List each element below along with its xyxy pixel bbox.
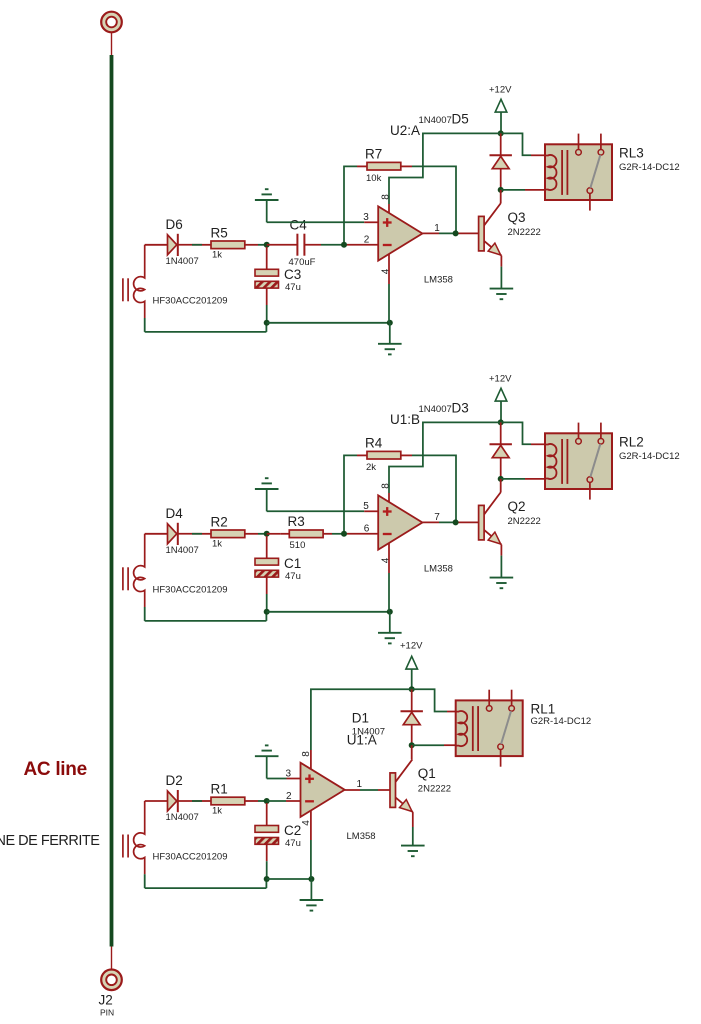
power +12V (stage U1:A)	[406, 656, 418, 689]
ground (below op-amp)	[378, 323, 402, 355]
label U2:A	[390, 123, 420, 138]
ground (non-inverting input)	[255, 478, 279, 511]
svg-text:LM358: LM358	[424, 563, 453, 574]
wire C3 to bottom net	[266, 288, 268, 323]
svg-text:1: 1	[434, 223, 440, 234]
transistor Q1 2N2222	[390, 760, 413, 813]
capacitor C4 470uF	[297, 234, 304, 256]
svg-text:U1:A: U1:A	[347, 733, 377, 748]
wire bottom net	[267, 878, 312, 880]
label U1:B	[390, 412, 420, 427]
svg-text:6: 6	[364, 524, 370, 535]
ground (emitter Q3)	[490, 289, 514, 300]
svg-text:C1: C1	[284, 556, 301, 571]
label 2k (R4)	[366, 462, 376, 473]
svg-text:LM358: LM358	[424, 274, 453, 285]
label D4	[166, 506, 184, 521]
wire inductor top to diode D4	[145, 533, 168, 535]
svg-text:2k: 2k	[366, 462, 376, 473]
label R4	[365, 436, 383, 451]
svg-text:1N4007: 1N4007	[166, 545, 199, 556]
svg-text:+12V: +12V	[489, 84, 512, 95]
resistor R4 feedback	[357, 451, 412, 459]
svg-text:U1:B: U1:B	[390, 412, 420, 427]
wire node to resistor R3	[267, 533, 281, 535]
wire +12V to op-amp pin 8 (U1:A)	[311, 689, 412, 770]
transistor Q3 2N2222	[479, 203, 502, 256]
svg-text:3: 3	[286, 769, 292, 780]
svg-text:47u: 47u	[285, 571, 301, 582]
label 2N2222 (Q2)	[508, 516, 541, 527]
capacitor C2 47u	[255, 826, 279, 845]
wire op-amp output to transistor base (Q1)	[345, 789, 390, 791]
capacitor C3 47u	[255, 269, 279, 288]
wire +12V to relay coil (RL1)	[412, 689, 456, 711]
svg-text:G2R-14-DC12: G2R-14-DC12	[619, 451, 680, 462]
wire D6 to R5	[178, 244, 202, 246]
resistor R7 feedback	[357, 162, 412, 170]
label +12V (stage U2:A)	[489, 84, 512, 95]
wire C4 to op-amp inverting input	[304, 244, 378, 246]
svg-text:HF30ACC201209: HF30ACC201209	[153, 584, 228, 595]
svg-text:D3: D3	[452, 401, 469, 416]
svg-text:D1: D1	[352, 711, 369, 726]
diode D4	[168, 523, 178, 545]
label RL3	[619, 145, 644, 160]
svg-text:HF30ACC201209: HF30ACC201209	[153, 852, 228, 863]
svg-text:1: 1	[357, 779, 363, 790]
svg-text:5: 5	[363, 501, 369, 512]
wire AC line to terminal (bottom)	[111, 947, 113, 970]
svg-text:8: 8	[381, 483, 392, 489]
ground (non-inverting input)	[255, 745, 279, 778]
wire R4 to inverting input	[344, 455, 357, 533]
relay RL1 G2R-14-DC12	[456, 690, 523, 767]
svg-text:+12V: +12V	[489, 373, 512, 384]
svg-text:1N4007: 1N4007	[419, 115, 452, 126]
diode D6	[168, 234, 178, 256]
label Q2	[508, 499, 526, 514]
label D1	[352, 711, 369, 726]
label +12V (stage U1:B)	[489, 373, 512, 384]
diode D5 1N4007	[490, 133, 512, 190]
svg-text:2: 2	[286, 791, 292, 802]
label 1k (R5)	[212, 249, 222, 260]
svg-text:RL3: RL3	[619, 145, 644, 160]
label 1N4007 (D2)	[166, 812, 199, 823]
resistor R1 1k	[202, 797, 258, 805]
label U1:A	[347, 733, 377, 748]
wire node to capacitor C4	[267, 244, 298, 246]
label R2	[211, 514, 228, 529]
wire C1 to bottom net	[266, 577, 268, 612]
ground (emitter Q2)	[490, 578, 514, 589]
svg-text:D2: D2	[166, 773, 183, 788]
svg-text:LM358: LM358	[347, 831, 376, 842]
svg-text:J2: J2	[99, 993, 113, 1008]
label HF30ACC201209 (L2)	[153, 852, 228, 863]
svg-text:D6: D6	[166, 217, 183, 232]
wire R7 to output	[412, 166, 456, 233]
wire emitter to ground (Q1)	[412, 812, 414, 846]
svg-text:HF30ACC201209: HF30ACC201209	[153, 295, 228, 306]
svg-text:2N2222: 2N2222	[508, 227, 541, 238]
label 47u (C1)	[285, 571, 301, 582]
svg-text:G2R-14-DC12: G2R-14-DC12	[531, 716, 592, 727]
inductor L2 HF30ACC201209	[123, 801, 145, 874]
node +12V junction (stage 3)	[409, 686, 415, 692]
wire D2 to R1	[178, 800, 202, 802]
wire node to relay coil	[501, 189, 546, 191]
wire op-amp output to transistor base	[422, 232, 478, 234]
label 10k (R7)	[366, 173, 382, 184]
resistor R5 1k	[202, 241, 258, 249]
svg-text:AC line: AC line	[24, 759, 87, 780]
svg-text:R4: R4	[365, 436, 383, 451]
label G2R-14-DC12 (RL3)	[619, 162, 680, 173]
wire node to op-amp inverting input	[267, 800, 301, 802]
ground (emitter Q1)	[401, 846, 425, 857]
label AC line	[24, 759, 87, 780]
ground (non-inverting input)	[255, 189, 279, 222]
svg-text:1k: 1k	[212, 538, 222, 549]
svg-text:1N4007: 1N4007	[166, 812, 199, 823]
label C4	[290, 218, 308, 233]
label D6	[166, 217, 183, 232]
node flyback diode junction	[498, 187, 504, 193]
ground (below op-amp)	[300, 879, 324, 911]
label G2R-14-DC12 (RL1)	[531, 716, 592, 727]
label 2N2222 (Q1)	[418, 783, 451, 794]
label Q1	[418, 766, 436, 781]
label HF30ACC201209 (L6)	[153, 295, 228, 306]
node C3 bottom junction	[264, 320, 270, 326]
wire ground to op-amp non-inverting input	[267, 510, 379, 512]
label NE DE FERRITE	[0, 833, 100, 849]
svg-text:R3: R3	[288, 514, 305, 529]
svg-text:U2:A: U2:A	[390, 123, 420, 138]
svg-text:C3: C3	[284, 267, 301, 282]
label J2	[99, 993, 113, 1008]
label 510 (R3)	[290, 540, 306, 551]
svg-text:Q3: Q3	[508, 210, 526, 225]
svg-text:G2R-14-DC12: G2R-14-DC12	[619, 162, 680, 173]
wire collector to node (Q1)	[411, 745, 413, 759]
label 1N4007 (D6)	[166, 256, 199, 267]
node R2/C1 junction	[264, 531, 270, 537]
wire op-amp pin 4 to ground	[388, 543, 390, 612]
power +12V (stage U2:A)	[495, 99, 507, 133]
wire inductor bottom loop	[145, 874, 267, 888]
wire node to relay coil (RL1)	[412, 744, 456, 746]
label D3	[452, 401, 469, 416]
wire op-amp output to transistor base	[422, 521, 478, 523]
wire emitter to ground	[500, 256, 502, 289]
wire C2 to bottom net	[266, 844, 268, 879]
label C2	[284, 823, 301, 838]
node inverting input junction	[341, 242, 347, 248]
terminal J2 top	[101, 12, 122, 33]
node ground junction	[387, 320, 393, 326]
resistor R2 1k	[202, 530, 258, 538]
wire AC line (thick vertical)	[110, 55, 114, 947]
label D2	[166, 773, 183, 788]
wire ground to op-amp non-inverting input	[267, 221, 379, 223]
label +12V (stage U1:A)	[400, 640, 423, 651]
op-amp U1:A LM358	[286, 751, 376, 842]
label 1k (R2)	[212, 538, 222, 549]
wire bottom net	[267, 322, 390, 324]
label R1	[211, 782, 228, 797]
label 1N4007 (D1)	[352, 727, 385, 738]
terminal J2 bottom	[101, 970, 122, 991]
node op-amp output junction	[453, 230, 459, 236]
svg-text:2: 2	[364, 235, 370, 246]
wire node to capacitor C1	[266, 536, 268, 559]
node ground junction	[308, 876, 314, 882]
label HF30ACC201209 (L4)	[153, 584, 228, 595]
svg-text:+12V: +12V	[400, 640, 423, 651]
transistor Q2 2N2222	[479, 492, 502, 545]
diode D3 1N4007	[490, 422, 512, 479]
resistor R3 510	[280, 530, 332, 538]
wire R5 to node	[258, 244, 267, 246]
wire inductor top to diode D2	[145, 800, 168, 802]
svg-text:PIN: PIN	[100, 1007, 114, 1017]
op-amp U1:B LM358	[363, 483, 453, 575]
label RL1	[531, 702, 556, 717]
wire collector to node	[500, 190, 502, 203]
node flyback diode junction	[498, 476, 504, 482]
svg-text:1N4007: 1N4007	[166, 256, 199, 267]
label 1k (R1)	[212, 806, 222, 817]
label Q3	[508, 210, 526, 225]
wire op-amp pin 4 to ground	[388, 254, 390, 323]
wire +12V to relay coil	[501, 422, 546, 444]
node +12V junction	[498, 130, 504, 136]
svg-text:1k: 1k	[212, 806, 222, 817]
svg-text:RL2: RL2	[619, 434, 644, 449]
svg-text:R1: R1	[211, 782, 228, 797]
power +12V (stage U1:B)	[495, 388, 507, 422]
node +12V junction	[498, 419, 504, 425]
wire inductor top to diode D6	[145, 244, 168, 246]
wire terminal to AC line (top)	[111, 33, 113, 55]
svg-text:10k: 10k	[366, 173, 382, 184]
svg-text:R5: R5	[211, 225, 228, 240]
svg-text:R2: R2	[211, 514, 228, 529]
wire bottom net	[267, 611, 390, 613]
svg-text:2N2222: 2N2222	[508, 516, 541, 527]
capacitor C1 47u	[255, 558, 279, 577]
wire node to relay coil	[501, 478, 546, 480]
label RL2	[619, 434, 644, 449]
wire inductor bottom loop	[145, 607, 267, 621]
label R5	[211, 225, 228, 240]
svg-text:510: 510	[290, 540, 306, 551]
op-amp U2:A LM358	[363, 194, 453, 286]
node inverting input junction	[341, 531, 347, 537]
node R1/C2 junction	[264, 798, 270, 804]
svg-text:D5: D5	[452, 112, 469, 127]
wire op-amp pin 4 to ground (U1:A)	[310, 810, 312, 878]
wire R2 to node	[258, 533, 267, 535]
svg-text:8: 8	[301, 751, 312, 757]
node C1 bottom junction	[264, 609, 270, 615]
label D5	[452, 112, 469, 127]
label G2R-14-DC12 (RL2)	[619, 451, 680, 462]
svg-text:RL1: RL1	[531, 702, 556, 717]
label R3	[288, 514, 305, 529]
diode D2	[168, 790, 178, 812]
diode D1 1N4007	[401, 689, 423, 745]
ground (below op-amp)	[378, 612, 402, 644]
wire node to capacitor C3	[266, 247, 268, 269]
wire emitter to ground	[500, 545, 502, 578]
svg-text:Q1: Q1	[418, 766, 436, 781]
node flyback diode junction (D1)	[409, 742, 415, 748]
label 470uF (C4)	[289, 257, 316, 268]
wire node to capacitor C2	[266, 803, 268, 826]
wire D4 to R2	[178, 533, 202, 535]
relay RL3 G2R-14-DC12	[545, 134, 612, 211]
wire ground to op-amp non-inverting input	[267, 778, 301, 780]
svg-text:2N2222: 2N2222	[418, 783, 451, 794]
svg-text:7: 7	[434, 512, 440, 523]
wire +12V to op-amp pin 8	[389, 133, 501, 214]
label C1	[284, 556, 301, 571]
node ground junction	[387, 609, 393, 615]
wire collector to node	[500, 479, 502, 492]
svg-text:D4: D4	[166, 506, 184, 521]
wire R1 to node	[258, 800, 267, 802]
svg-text:8: 8	[381, 194, 392, 200]
svg-text:1k: 1k	[212, 249, 222, 260]
relay RL2 G2R-14-DC12	[545, 423, 612, 500]
wire +12V to op-amp pin 8	[389, 422, 501, 503]
svg-text:NE DE FERRITE: NE DE FERRITE	[0, 833, 100, 849]
svg-text:R7: R7	[365, 147, 382, 162]
wire +12V to relay coil	[501, 133, 546, 155]
label C3	[284, 267, 301, 282]
node R5/C3 junction	[264, 242, 270, 248]
svg-text:1N4007: 1N4007	[419, 404, 452, 415]
label 1N4007 (D5)	[419, 115, 452, 126]
wire inductor bottom loop	[145, 318, 267, 332]
label 47u (C3)	[285, 282, 301, 293]
label PIN	[100, 1007, 114, 1017]
label R7	[365, 147, 382, 162]
inductor L4 HF30ACC201209	[123, 534, 145, 607]
node op-amp output junction	[453, 519, 459, 525]
svg-text:Q2: Q2	[508, 499, 526, 514]
wire R4 to output	[412, 455, 456, 522]
label 2N2222 (Q3)	[508, 227, 541, 238]
svg-text:C2: C2	[284, 823, 301, 838]
node C2 bottom junction	[264, 876, 270, 882]
label 1N4007 (D3)	[419, 404, 452, 415]
svg-text:47u: 47u	[285, 838, 301, 849]
inductor L6 HF30ACC201209	[123, 245, 145, 318]
label 47u (C2)	[285, 838, 301, 849]
svg-text:C4: C4	[290, 218, 308, 233]
svg-text:47u: 47u	[285, 282, 301, 293]
label 1N4007 (D4)	[166, 545, 199, 556]
svg-text:3: 3	[363, 212, 369, 223]
wire R7 to inverting input	[344, 166, 357, 244]
wire R3 to op-amp inverting input	[332, 533, 378, 535]
